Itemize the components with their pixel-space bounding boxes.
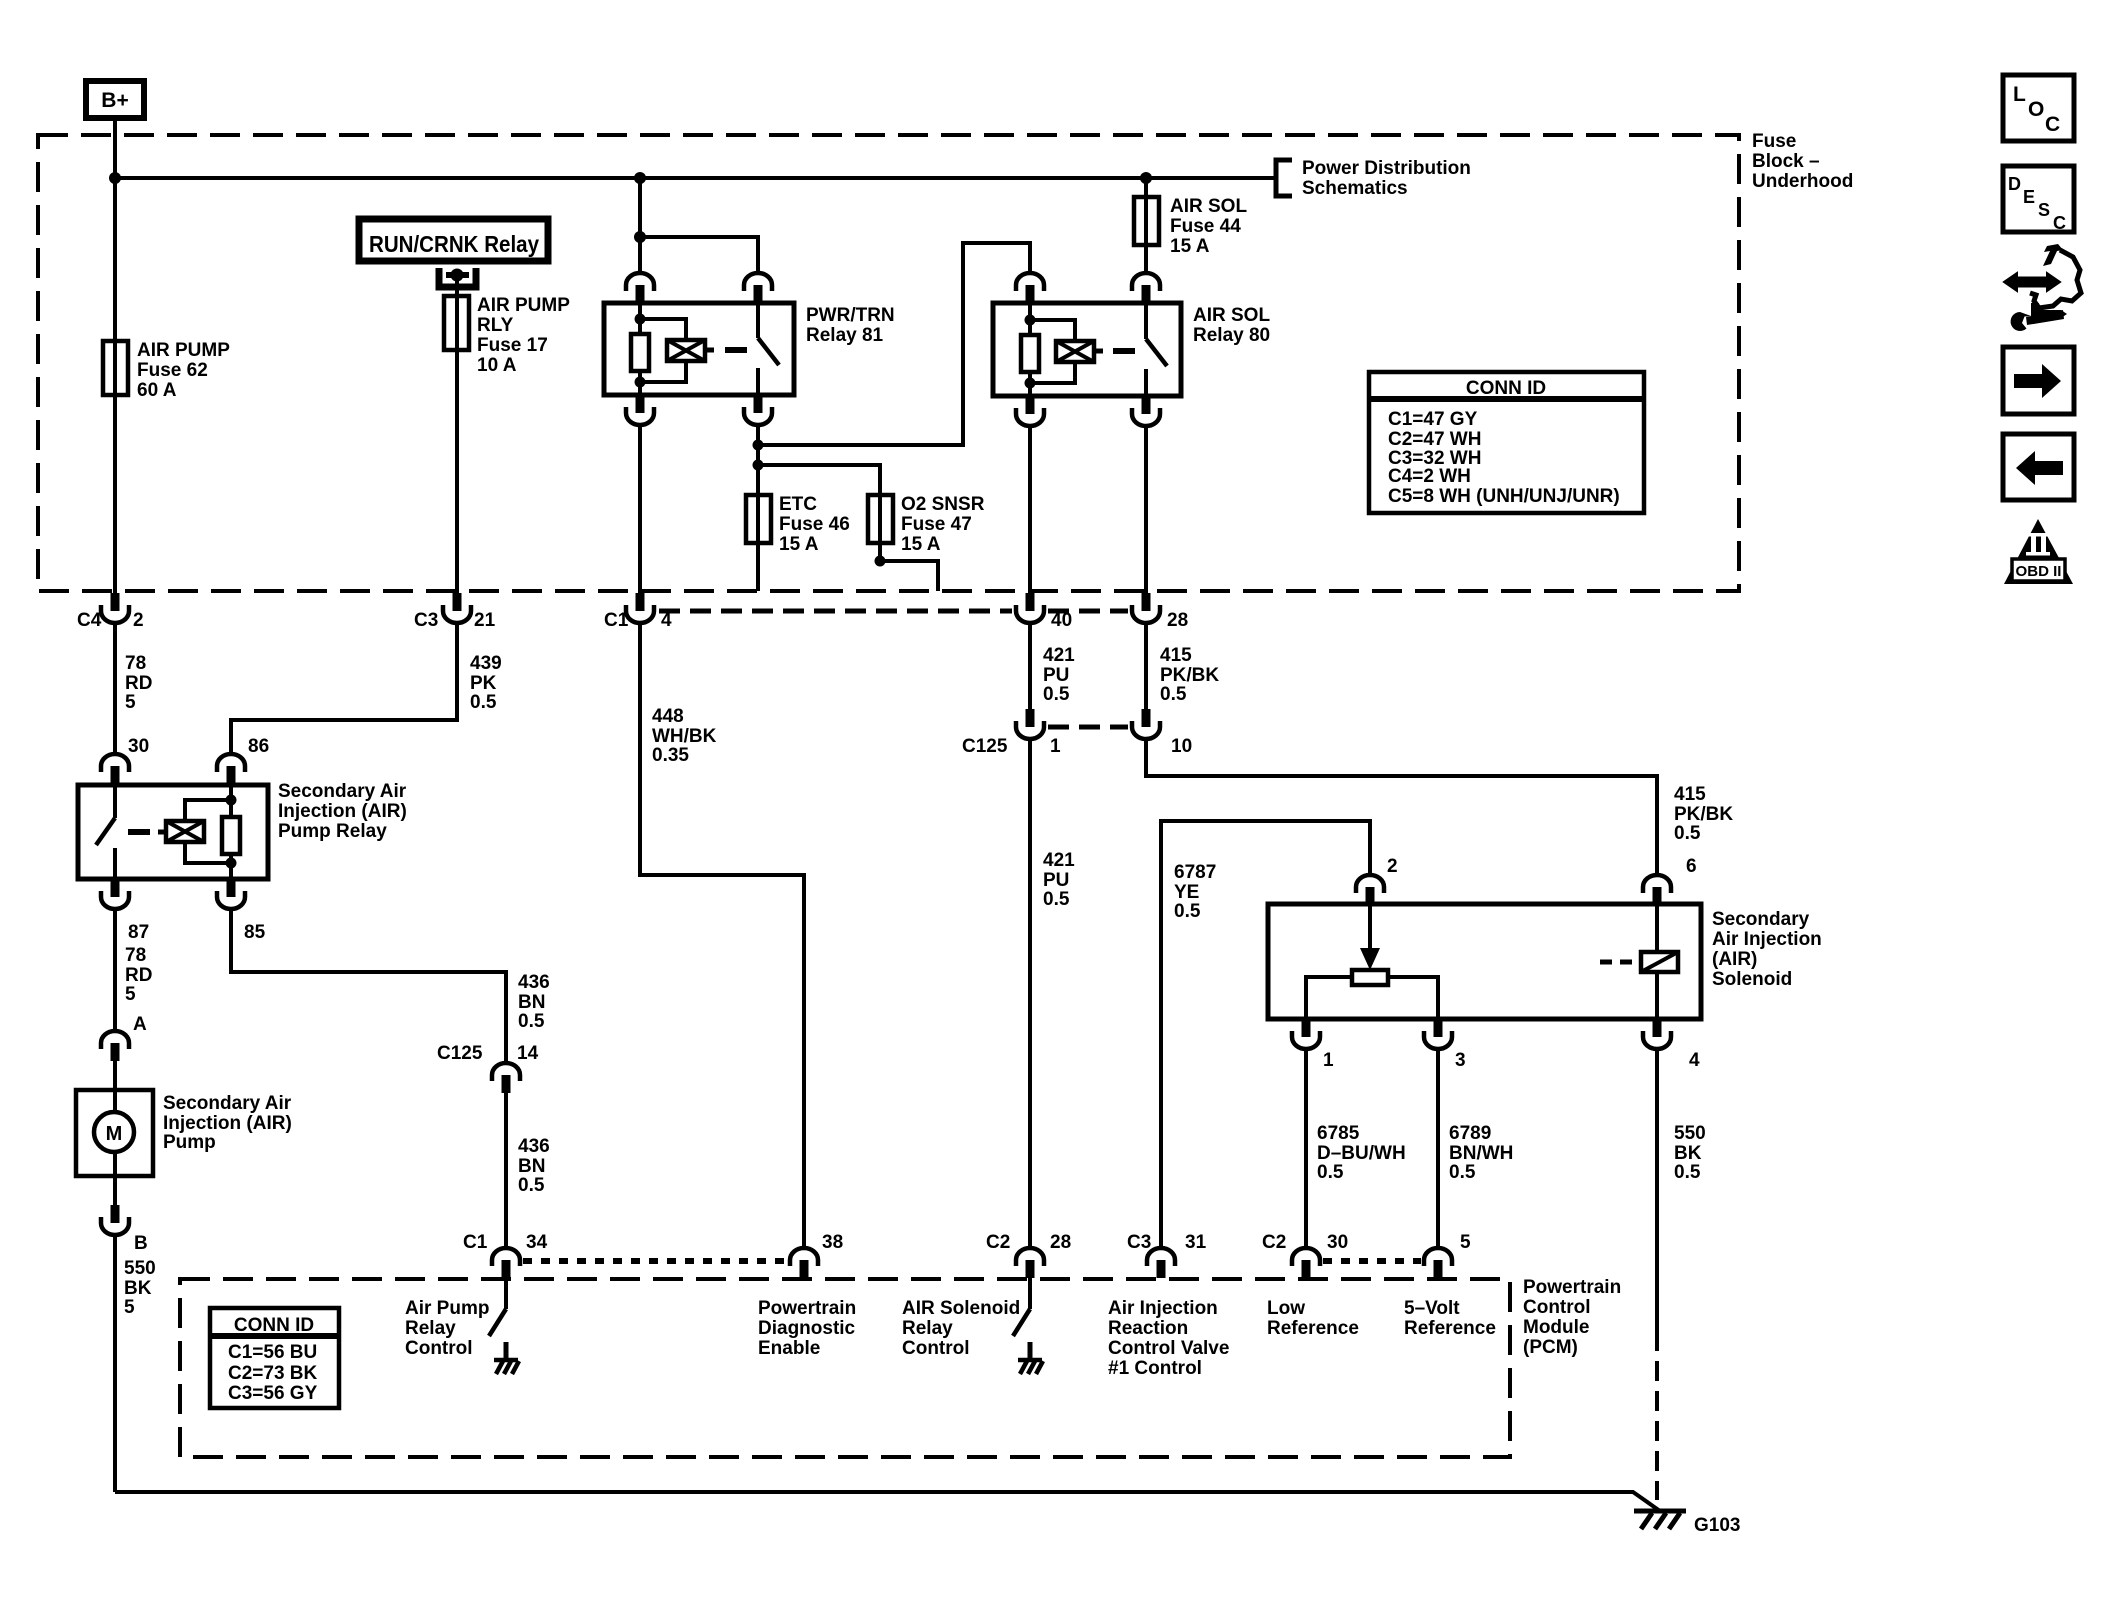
- svg-text:WH/BK: WH/BK: [652, 726, 717, 747]
- connector C4 pin 2: [101, 593, 129, 623]
- node bus-left: [109, 172, 121, 184]
- svg-text:0.5: 0.5: [1043, 684, 1070, 705]
- svg-text:10 A: 10 A: [477, 355, 517, 376]
- svg-text:AIR PUMP: AIR PUMP: [477, 295, 570, 316]
- connector line at fuse block exit: [659, 609, 1012, 614]
- switch pump relay: [113, 785, 117, 818]
- svg-text:AIR PUMP: AIR PUMP: [137, 340, 230, 361]
- svg-text:78: 78: [125, 945, 146, 966]
- svg-text:C2=73 BK: C2=73 BK: [228, 1363, 318, 1384]
- wire 6789: [1436, 1049, 1440, 1248]
- connector C125 pin 10: [1132, 709, 1160, 739]
- connector pin 28: [1132, 593, 1160, 623]
- connector C125 pin 1: [1016, 709, 1044, 739]
- wire 436 BN 0.5 lower: [504, 1093, 508, 1248]
- svg-text:O: O: [2028, 98, 2044, 121]
- wire to pump: [113, 1061, 117, 1090]
- wire 415 PKBK to solenoid: [1146, 739, 1657, 875]
- svg-text:Relay: Relay: [902, 1318, 953, 1339]
- svg-text:B+: B+: [101, 89, 128, 112]
- svg-text:34: 34: [526, 1232, 548, 1253]
- svg-text:0.5: 0.5: [470, 692, 497, 713]
- ground pcm left: [494, 1360, 519, 1374]
- svg-text:3: 3: [1455, 1050, 1466, 1071]
- svg-text:C125: C125: [437, 1043, 483, 1064]
- icon forward arrow: [2003, 347, 2074, 414]
- resistor relay81: [631, 334, 649, 371]
- wire to fuse 62: [113, 178, 117, 593]
- svg-text:28: 28: [1050, 1232, 1071, 1253]
- wire 550 BK 0.5: [1655, 1049, 1659, 1331]
- svg-text:C: C: [2053, 213, 2066, 233]
- svg-text:15 A: 15 A: [1170, 236, 1210, 257]
- svg-text:CONN ID: CONN ID: [1466, 378, 1546, 399]
- wire bus to relay81 coil: [638, 178, 642, 273]
- solenoid AIR box: [1268, 904, 1701, 1019]
- fuse block underhood dashed box: [38, 135, 1739, 591]
- node relay81 drop: [634, 172, 646, 184]
- svg-text:6: 6: [1686, 856, 1697, 877]
- svg-text:Enable: Enable: [758, 1338, 820, 1359]
- wire B+ bus: [115, 176, 1276, 180]
- svg-text:D–BU/WH: D–BU/WH: [1317, 1143, 1406, 1164]
- svg-text:Power Distribution: Power Distribution: [1302, 158, 1471, 179]
- wire 550 BK 5: [113, 1235, 117, 1492]
- svg-text:415: 415: [1674, 784, 1706, 805]
- svg-text:14: 14: [517, 1043, 539, 1064]
- connector B: [113, 1176, 117, 1205]
- connector PCM C2 pin 28: [1016, 1248, 1044, 1278]
- svg-text:Control: Control: [1523, 1297, 1591, 1318]
- svg-text:C4=2 WH: C4=2 WH: [1388, 466, 1471, 487]
- relay U81 PWR/TRN box: [604, 303, 794, 395]
- wire 436 BN 0.5 upper: [231, 909, 506, 1063]
- svg-text:85: 85: [244, 922, 266, 943]
- svg-text:421: 421: [1043, 645, 1075, 666]
- svg-text:C4: C4: [77, 610, 102, 631]
- connector solenoid pin 6: [1643, 875, 1671, 905]
- svg-text:6785: 6785: [1317, 1123, 1360, 1144]
- connector pump relay pin 87: [101, 879, 129, 909]
- svg-text:0.5: 0.5: [1674, 1162, 1701, 1183]
- coil loop pump relay: [185, 800, 231, 821]
- svg-text:Powertrain: Powertrain: [1523, 1277, 1621, 1298]
- switch relay80: [1144, 303, 1148, 339]
- svg-text:31: 31: [1185, 1232, 1207, 1253]
- coil loop relay81: [640, 319, 686, 340]
- svg-text:Fuse 47: Fuse 47: [901, 514, 972, 535]
- svg-text:Fuse 46: Fuse 46: [779, 514, 850, 535]
- svg-text:L: L: [2013, 83, 2026, 106]
- svg-text:O2 SNSR: O2 SNSR: [901, 494, 985, 515]
- connector C1 pin 4: [626, 593, 654, 623]
- svg-text:436: 436: [518, 972, 550, 993]
- switch air sol relay control: [1028, 1278, 1032, 1309]
- relay U80 AIR SOL box: [993, 303, 1181, 396]
- relay81 coil branch: [638, 303, 642, 334]
- svg-text:(AIR): (AIR): [1712, 949, 1757, 970]
- svg-text:C2=47 WH: C2=47 WH: [1388, 429, 1481, 450]
- svg-text:Air Pump: Air Pump: [405, 1298, 489, 1319]
- svg-text:AIR Solenoid: AIR Solenoid: [902, 1298, 1020, 1319]
- svg-text:Module: Module: [1523, 1317, 1590, 1338]
- coil pump relay: [166, 821, 204, 842]
- wire to relay80 coil: [758, 243, 1030, 445]
- svg-text:Low: Low: [1267, 1298, 1305, 1319]
- connector A: [101, 1031, 129, 1061]
- icon DESC: [2003, 166, 2074, 233]
- svg-text:Fuse: Fuse: [1752, 131, 1796, 152]
- coil loop relay80: [1030, 320, 1075, 341]
- relay AIR pump relay box: [78, 785, 268, 879]
- dotted line pcm 30-5: [1323, 1258, 1421, 1264]
- node fuse44 drop: [1140, 172, 1152, 184]
- svg-text:D: D: [2008, 174, 2021, 194]
- svg-text:C1: C1: [604, 610, 629, 631]
- wire 415 PKBK to C125: [1144, 623, 1148, 709]
- svg-text:C2: C2: [986, 1232, 1010, 1253]
- svg-text:M: M: [106, 1123, 123, 1145]
- dash pump relay: [128, 829, 150, 835]
- svg-text:Relay 80: Relay 80: [1193, 325, 1270, 346]
- off-page bracket Power Distribution: [1276, 160, 1292, 196]
- svg-text:Injection (AIR): Injection (AIR): [278, 801, 407, 822]
- connector pump relay pin 30: [101, 754, 129, 784]
- svg-text:0.5: 0.5: [518, 1011, 545, 1032]
- svg-text:RD: RD: [125, 673, 152, 694]
- svg-text:Secondary Air: Secondary Air: [278, 781, 407, 802]
- svg-text:PU: PU: [1043, 870, 1069, 891]
- svg-text:0.5: 0.5: [1449, 1162, 1476, 1183]
- wire 6787 YE: [1161, 821, 1370, 1248]
- svg-text:0.5: 0.5: [1674, 823, 1701, 844]
- svg-text:Diagnostic: Diagnostic: [758, 1318, 856, 1339]
- resistor relay80: [1021, 335, 1039, 372]
- svg-text:78: 78: [125, 653, 146, 674]
- svg-text:PK/BK: PK/BK: [1674, 804, 1733, 825]
- svg-text:C2: C2: [1262, 1232, 1286, 1253]
- svg-text:Control Valve: Control Valve: [1108, 1338, 1229, 1359]
- svg-text:C: C: [2045, 113, 2060, 136]
- svg-text:Solenoid: Solenoid: [1712, 969, 1792, 990]
- svg-text:5: 5: [124, 1297, 135, 1318]
- svg-text:E: E: [2023, 187, 2035, 207]
- icon back arrow: [2003, 434, 2074, 500]
- svg-text:Air Injection: Air Injection: [1108, 1298, 1218, 1319]
- RUN/CRNK Relay box: [359, 219, 548, 261]
- connector PCM C3 pin 31: [1147, 1248, 1175, 1278]
- connector solenoid pin 1: [1292, 1019, 1320, 1049]
- svg-text:Powertrain: Powertrain: [758, 1298, 856, 1319]
- svg-text:0.5: 0.5: [1160, 684, 1187, 705]
- svg-text:C3=56 GY: C3=56 GY: [228, 1383, 318, 1404]
- connector relay80 pin top left: [1016, 273, 1044, 303]
- svg-text:2: 2: [133, 610, 144, 631]
- svg-text:BK: BK: [124, 1278, 152, 1299]
- connector pump relay pin 86: [217, 754, 245, 784]
- connector relay81 pin top right: [744, 273, 772, 303]
- svg-text:Relay 81: Relay 81: [806, 325, 884, 346]
- svg-text:AIR SOL: AIR SOL: [1193, 305, 1270, 326]
- svg-text:C1=56 BU: C1=56 BU: [228, 1342, 317, 1363]
- svg-text:Fuse 44: Fuse 44: [1170, 216, 1241, 237]
- coil relay81: [667, 340, 705, 361]
- svg-text:0.5: 0.5: [1317, 1162, 1344, 1183]
- switch relay81: [756, 303, 760, 338]
- connector line C125: [1048, 725, 1128, 730]
- fuse F62 AIR PUMP: [103, 341, 128, 395]
- svg-text:Pump: Pump: [163, 1132, 216, 1153]
- svg-text:Underhood: Underhood: [1752, 171, 1853, 192]
- svg-text:RD: RD: [125, 965, 152, 986]
- wire clip to fuse17: [455, 275, 459, 300]
- ground pcm right: [1018, 1360, 1043, 1374]
- solenoid coil symbol: [1600, 960, 1612, 965]
- valve arrow: [1368, 904, 1372, 952]
- svg-text:BK: BK: [1674, 1143, 1702, 1164]
- svg-text:C1=47 GY: C1=47 GY: [1388, 409, 1478, 430]
- svg-text:421: 421: [1043, 850, 1075, 871]
- svg-text:87: 87: [128, 922, 149, 943]
- svg-text:4: 4: [1689, 1050, 1700, 1071]
- connector PCM pin 5: [1424, 1248, 1452, 1278]
- svg-text:Block –: Block –: [1752, 151, 1820, 172]
- svg-text:Secondary Air: Secondary Air: [163, 1093, 292, 1114]
- wire fuse44 feed: [1144, 178, 1148, 200]
- svg-text:RLY: RLY: [477, 315, 514, 336]
- wire 78 RD 5 lower: [113, 909, 117, 1031]
- wire relay80 to pin 28: [1144, 426, 1148, 593]
- svg-text:6787: 6787: [1174, 862, 1216, 883]
- PCM dashed box: [180, 1279, 1510, 1457]
- svg-text:2: 2: [1387, 856, 1398, 877]
- svg-text:15 A: 15 A: [901, 534, 941, 555]
- svg-text:Secondary: Secondary: [1712, 909, 1810, 930]
- fuse F47 O2 SNSR: [868, 495, 893, 543]
- connector solenoid pin 3: [1424, 1019, 1452, 1049]
- svg-text:PK/BK: PK/BK: [1160, 665, 1219, 686]
- wire relay81 switched out: [756, 425, 760, 497]
- svg-text:C1: C1: [463, 1232, 488, 1253]
- connector C125 pin 14: [492, 1063, 520, 1093]
- dotted line pcm 34-38: [523, 1258, 788, 1264]
- connector relay80 bottom right: [1132, 396, 1160, 426]
- wire B+ stem: [113, 118, 117, 178]
- svg-text:G103: G103: [1694, 1515, 1740, 1536]
- CONN ID table fuse block: [1369, 372, 1644, 513]
- svg-text:S: S: [2038, 200, 2050, 220]
- svg-text:Relay: Relay: [405, 1318, 456, 1339]
- connector relay81 pin top left: [626, 273, 654, 303]
- svg-text:30: 30: [1327, 1232, 1348, 1253]
- connector relay81 bottom left: [626, 395, 654, 425]
- svg-text:B: B: [134, 1233, 148, 1254]
- icon usage arrows and wrench: [2004, 244, 2081, 331]
- connector relay80 bottom left: [1016, 396, 1044, 426]
- wire 6785: [1304, 1049, 1308, 1248]
- svg-text:PU: PU: [1043, 665, 1069, 686]
- svg-text:Reaction: Reaction: [1108, 1318, 1188, 1339]
- svg-text:#1 Control: #1 Control: [1108, 1358, 1202, 1379]
- svg-text:Reference: Reference: [1267, 1318, 1359, 1339]
- svg-text:415: 415: [1160, 645, 1192, 666]
- svg-text:C5=8 WH (UNH/UNJ/UNR): C5=8 WH (UNH/UNJ/UNR): [1388, 486, 1620, 507]
- wire 78 RD 5 upper: [113, 623, 117, 754]
- svg-text:5: 5: [125, 692, 136, 713]
- connector PCM pin 38: [790, 1248, 818, 1278]
- svg-text:436: 436: [518, 1136, 550, 1157]
- wire 448 WH/BK: [640, 623, 804, 1248]
- svg-text:28: 28: [1167, 610, 1188, 631]
- CONN ID table PCM: [210, 1308, 339, 1408]
- connector relay81 bottom right: [744, 395, 772, 425]
- svg-text:5: 5: [125, 984, 136, 1005]
- svg-text:Reference: Reference: [1404, 1318, 1496, 1339]
- icon LOC: [2003, 75, 2074, 141]
- connector solenoid pin 2: [1356, 875, 1384, 905]
- svg-text:21: 21: [474, 610, 496, 631]
- svg-text:448: 448: [652, 706, 684, 727]
- ground G103: [1634, 1511, 1686, 1529]
- svg-text:60 A: 60 A: [137, 380, 177, 401]
- svg-text:A: A: [133, 1014, 147, 1035]
- svg-text:Pump Relay: Pump Relay: [278, 821, 387, 842]
- wire relay80 to pin 40: [1028, 426, 1032, 593]
- svg-text:550: 550: [1674, 1123, 1706, 1144]
- svg-text:0.5: 0.5: [518, 1175, 545, 1196]
- wire ground run: [115, 1492, 1660, 1511]
- fuse F17 AIR PUMP RLY: [444, 296, 469, 350]
- svg-text:Injection (AIR): Injection (AIR): [163, 1113, 292, 1134]
- svg-text:ETC: ETC: [779, 494, 817, 515]
- relay socket clip: [439, 268, 476, 287]
- svg-text:C125: C125: [962, 736, 1008, 757]
- svg-text:RUN/CRNK Relay: RUN/CRNK Relay: [369, 231, 539, 257]
- switch air pump relay control: [504, 1278, 508, 1309]
- motor pump box: [76, 1090, 153, 1176]
- coil relay80: [1056, 341, 1094, 362]
- svg-text:Fuse 62: Fuse 62: [137, 360, 208, 381]
- svg-text:Schematics: Schematics: [1302, 178, 1408, 199]
- icon OBD II triangle: [2004, 519, 2073, 584]
- svg-text:Control: Control: [405, 1338, 473, 1359]
- svg-text:OBD II: OBD II: [2016, 563, 2062, 580]
- relay80 coil branch: [1028, 303, 1032, 335]
- svg-text:PK: PK: [470, 673, 497, 694]
- svg-text:BN: BN: [518, 1156, 545, 1177]
- node branch 237: [634, 231, 646, 243]
- svg-text:0.5: 0.5: [1043, 889, 1070, 910]
- B+ terminal box: [86, 81, 144, 118]
- connector pin 40: [1016, 593, 1044, 623]
- svg-text:86: 86: [248, 736, 269, 757]
- svg-text:6789: 6789: [1449, 1123, 1491, 1144]
- svg-text:0.35: 0.35: [652, 745, 689, 766]
- svg-text:5–Volt: 5–Volt: [1404, 1298, 1460, 1319]
- resistor solenoid: [1352, 970, 1388, 985]
- svg-text:Control: Control: [902, 1338, 970, 1359]
- svg-text:(PCM): (PCM): [1523, 1337, 1578, 1358]
- svg-text:Air Injection: Air Injection: [1712, 929, 1822, 950]
- connector PCM C1 pin 34: [492, 1248, 520, 1278]
- svg-text:439: 439: [470, 653, 502, 674]
- wire branch to switch pin: [640, 237, 758, 273]
- svg-text:AIR SOL: AIR SOL: [1170, 196, 1247, 217]
- connector C3 pin 21: [443, 593, 471, 623]
- svg-text:BN/WH: BN/WH: [1449, 1143, 1513, 1164]
- svg-text:BN: BN: [518, 992, 545, 1013]
- svg-text:PWR/TRN: PWR/TRN: [806, 305, 895, 326]
- svg-text:550: 550: [124, 1258, 156, 1279]
- connector relay80 pin top right: [1132, 273, 1160, 303]
- svg-text:YE: YE: [1174, 882, 1199, 903]
- connector PCM C2 pin 30: [1292, 1248, 1320, 1278]
- svg-text:38: 38: [822, 1232, 843, 1253]
- svg-text:15 A: 15 A: [779, 534, 819, 555]
- svg-text:1: 1: [1323, 1050, 1334, 1071]
- wire 439 PK 0.5: [231, 623, 457, 754]
- resistor pump relay: [229, 785, 233, 817]
- connector pump relay pin 85: [217, 879, 245, 909]
- svg-text:10: 10: [1171, 736, 1192, 757]
- svg-text:1: 1: [1050, 736, 1061, 757]
- svg-text:30: 30: [128, 736, 149, 757]
- svg-text:C3: C3: [1127, 1232, 1151, 1253]
- svg-text:0.5: 0.5: [1174, 901, 1201, 922]
- wire branch to O2 fuse: [758, 465, 880, 497]
- wire relay81 out to C1 pin 4: [638, 425, 642, 593]
- fuse F44 AIR SOL: [1134, 197, 1159, 245]
- wire 421 PU lower: [1028, 739, 1032, 1248]
- svg-text:CONN ID: CONN ID: [234, 1315, 314, 1336]
- svg-text:Fuse 17: Fuse 17: [477, 335, 548, 356]
- svg-text:C3: C3: [414, 610, 438, 631]
- svg-text:5: 5: [1460, 1232, 1471, 1253]
- connector solenoid pin 4: [1643, 1019, 1671, 1049]
- wire 421 PU to C125: [1028, 623, 1032, 709]
- fuse F46 ETC: [746, 495, 771, 543]
